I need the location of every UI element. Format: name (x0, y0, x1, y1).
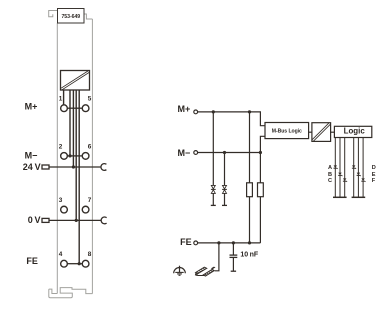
24V supply plug (42, 165, 49, 169)
svg-text:A: A (328, 165, 332, 171)
zener glyph pin D (352, 165, 356, 169)
wire M- to M-Bus Logic (198, 136, 265, 152)
logic pin line 6 (362, 137, 364, 197)
svg-text:F: F (372, 178, 376, 184)
zener glyph pin E (357, 173, 361, 177)
pin group bar left (333, 196, 347, 198)
junction dot M+/TVS A (212, 110, 215, 113)
wire 1 (converter to contact 1) (63, 90, 65, 105)
svg-text:6: 6 (88, 143, 92, 150)
svg-text:7: 7 (88, 197, 92, 204)
svg-text:5: 5 (88, 96, 92, 103)
logic pin line 3 (344, 137, 346, 197)
svg-text:FE: FE (180, 237, 192, 247)
svg-text:M−: M− (178, 148, 191, 158)
svg-text:10 nF: 10 nF (240, 251, 258, 258)
TVS suppressor B wire (224, 153, 226, 186)
M-Bus Logic box (265, 123, 309, 139)
contact 6 (82, 153, 89, 160)
capacitor C1 plates (230, 254, 238, 256)
svg-text:3: 3 (59, 197, 63, 204)
resistor C wire (249, 112, 251, 243)
resistor D body (258, 183, 264, 197)
logic pin line 1 (334, 137, 336, 197)
TVS suppressor A symbol (211, 185, 215, 189)
terminal M+ (194, 110, 198, 114)
FE wire (198, 242, 261, 244)
svg-text:M+: M+ (25, 101, 38, 111)
svg-text:2: 2 (59, 143, 63, 150)
0V supply plug (42, 218, 49, 222)
logic pin line 2 (339, 137, 341, 197)
DIN rail clip symbol (195, 267, 216, 276)
junction dot wire4/0V (75, 219, 78, 222)
svg-text:4: 4 (59, 251, 63, 258)
svg-text:0 V: 0 V (28, 215, 41, 225)
svg-text:Logic: Logic (344, 127, 366, 136)
jumper link row 2-6 (67, 155, 82, 157)
contact 2 (61, 153, 68, 160)
logic pin line 4 (353, 137, 355, 197)
connector M-Bus to isolator (309, 131, 312, 133)
svg-text:24 V: 24 V (23, 162, 41, 172)
junction dot wire5/row4 (78, 262, 81, 265)
connector isolator to Logic (331, 131, 335, 133)
svg-text:753-649: 753-649 (61, 14, 80, 20)
zener glyph pin F (361, 178, 365, 182)
module outline left edge (56, 23, 58, 293)
zener glyph pin B (338, 173, 342, 177)
junction dot M-/resistor D (259, 151, 262, 154)
svg-text:FE: FE (26, 256, 38, 266)
24V rail wire (49, 166, 101, 168)
capacitor end bar (231, 270, 236, 272)
svg-text:M−: M− (25, 150, 38, 160)
capacitor C1 wires (232, 243, 234, 255)
contact 5 (82, 105, 89, 112)
module top-right latch hook (84, 14, 92, 19)
contact 4 (61, 260, 68, 267)
power converter symbol (box with diagonal) (61, 71, 90, 91)
earth symbol (174, 266, 186, 276)
Logic box (334, 126, 371, 137)
wire 5 (converter to FE row) (78, 90, 80, 264)
svg-text:M-Bus Logic: M-Bus Logic (272, 128, 302, 134)
wire 2 (converter to contact row 2) (69, 90, 71, 156)
module bottom foot outline (49, 288, 93, 298)
junction dot wire3/24V (72, 165, 75, 168)
pin group bar right (352, 196, 366, 198)
TVS B end bar (222, 204, 227, 206)
wire FE to rail clip (215, 243, 219, 271)
0V rail wire (49, 219, 101, 221)
0V power jumper contact arc (101, 217, 106, 224)
junction dot M-/TVS B (223, 151, 226, 154)
terminal FE (194, 241, 198, 245)
terminal M- (194, 151, 198, 155)
label box 753-649 (58, 9, 85, 24)
svg-text:1: 1 (59, 96, 63, 103)
zener glyph pin A (334, 165, 338, 169)
contact 7 (82, 206, 89, 213)
jumper link row 1-5 (67, 107, 82, 109)
junction dot FE/capacitor (232, 241, 235, 244)
junction dot wire2/row2 (68, 154, 71, 157)
isolation barrier (box with diagonal) (312, 123, 331, 142)
contact 8 (82, 260, 89, 267)
logic pin line 5 (357, 137, 359, 197)
contact 1 (61, 105, 68, 112)
svg-text:8: 8 (88, 251, 92, 258)
contact 3 (61, 206, 68, 213)
module outline right edge (91, 19, 93, 294)
zener glyph pin C (343, 178, 347, 182)
jumper link row 4-8 (67, 263, 82, 265)
wire 4 (converter to 0V rail) (75, 90, 77, 220)
junction dot M+/resistor C (248, 110, 251, 113)
junction dot FE/rail drop (217, 241, 220, 244)
resistor D wire (259, 153, 261, 243)
resistor C body (247, 183, 253, 197)
TVS suppressor A wire (212, 112, 214, 185)
TVS A end bar (211, 204, 216, 206)
module bottom foot inner hook (49, 289, 58, 293)
junction dot FE/resistor C (248, 241, 251, 244)
svg-text:C: C (328, 178, 332, 184)
wire 3 (converter to 24V rail) (72, 90, 74, 167)
svg-text:M+: M+ (178, 104, 191, 114)
24V power jumper contact arc (101, 164, 106, 171)
svg-text:D: D (372, 165, 376, 171)
module top-left latch hook (49, 11, 58, 17)
wire M+ to M-Bus Logic (198, 112, 265, 126)
TVS suppressor B symbol (223, 185, 227, 189)
